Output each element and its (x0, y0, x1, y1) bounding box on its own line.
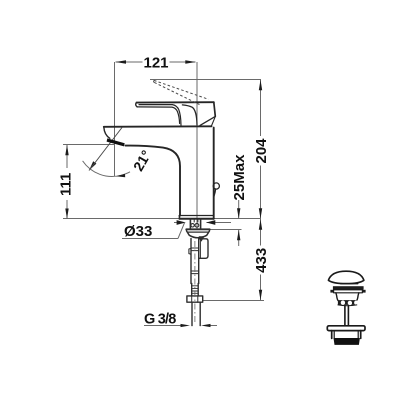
svg-text:25Max: 25Max (231, 154, 248, 201)
svg-text:433: 433 (253, 248, 270, 273)
svg-text:121: 121 (144, 54, 169, 71)
svg-text:111: 111 (58, 173, 75, 196)
svg-text:Ø33: Ø33 (124, 223, 152, 240)
svg-text:204: 204 (253, 138, 270, 164)
svg-text:G 3/8: G 3/8 (144, 311, 176, 327)
